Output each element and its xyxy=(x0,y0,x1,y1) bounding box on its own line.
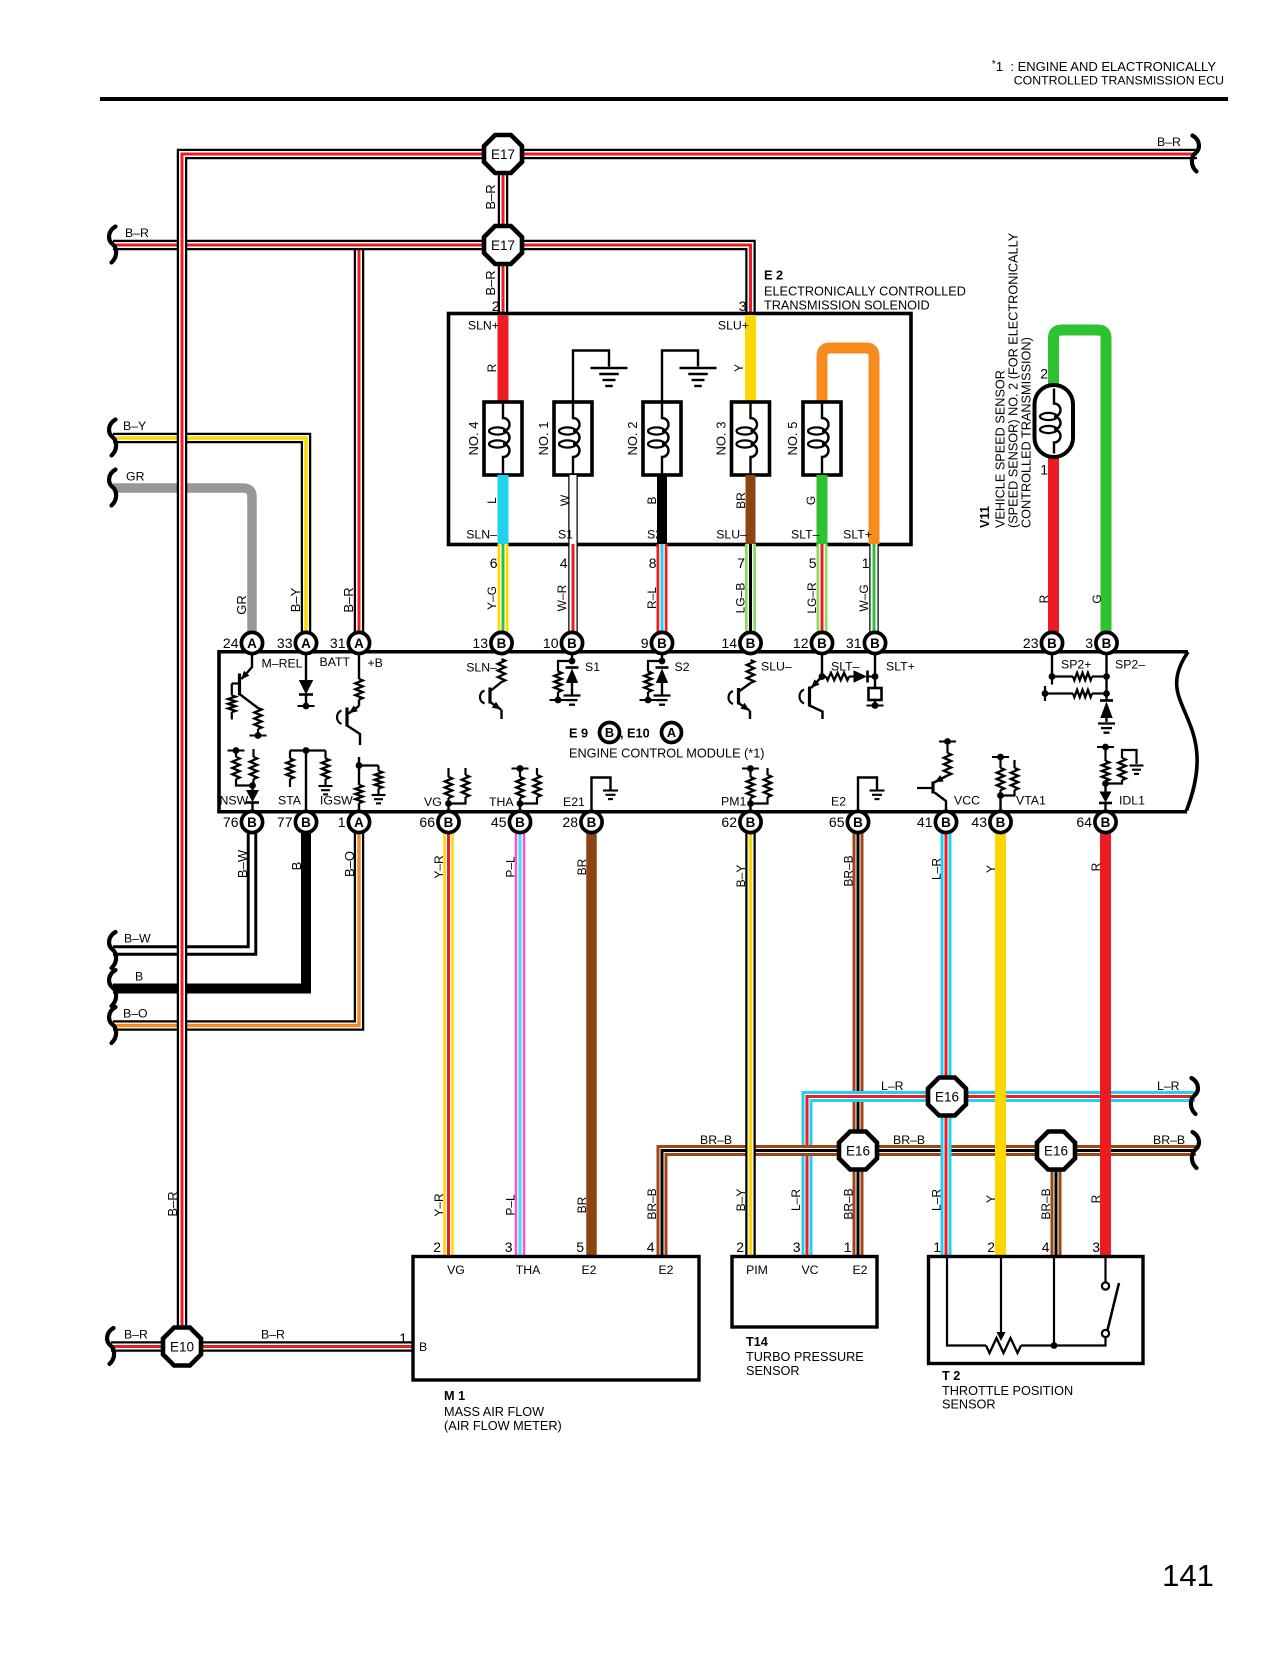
svg-text:M 1: M 1 xyxy=(444,1389,465,1403)
wire BR SLU- inside box xyxy=(746,475,756,544)
solenoid pin number 4 xyxy=(560,555,568,571)
label B-R (left, y245) xyxy=(125,226,149,240)
svg-text:1: 1 xyxy=(862,555,870,571)
svg-text:45: 45 xyxy=(491,814,507,830)
svg-text:3: 3 xyxy=(739,298,747,314)
connector E16 on BR-B left xyxy=(839,1132,877,1170)
continuation brace GR left xyxy=(109,470,116,506)
svg-text:5: 5 xyxy=(809,555,817,571)
svg-text:6: 6 xyxy=(490,555,498,571)
T14 pin number 2 xyxy=(736,1239,744,1255)
label S2 xyxy=(647,528,662,542)
svg-text:66: 66 xyxy=(419,814,435,830)
label SLN- xyxy=(466,528,497,542)
resistor IGSW xyxy=(355,757,382,812)
svg-text:B–Y: B–Y xyxy=(123,419,146,433)
ECM top pin 33 (A) xyxy=(277,632,317,653)
wire L-R horizontal run to T14 VC xyxy=(807,1097,1195,1257)
wire O loop from coil NO. 5 to SLT+ xyxy=(822,348,874,544)
title M 1 MASS AIR FLOW (AIR FLOW METER) xyxy=(444,1389,562,1433)
svg-text:SLT+: SLT+ xyxy=(886,660,915,674)
svg-text:PM1: PM1 xyxy=(721,795,746,809)
svg-text:B: B xyxy=(853,815,863,830)
svg-text:43: 43 xyxy=(971,814,987,830)
svg-text:M–REL: M–REL xyxy=(262,657,303,671)
wire B-R from left edge to solenoid pin 3 xyxy=(113,245,751,316)
label V11 VEHICLE SPEED SENSOR block xyxy=(978,232,1034,528)
solenoid box E2 outline xyxy=(449,314,912,545)
label BR-B rotated upper xyxy=(842,855,856,886)
ground (IDL1) xyxy=(1130,766,1144,774)
svg-text:B: B xyxy=(645,496,659,504)
svg-text:NO. 2: NO. 2 xyxy=(625,422,640,456)
transistor SLT- driver xyxy=(800,654,826,719)
svg-text:CONTROLLED TRANSMISSION): CONTROLLED TRANSMISSION) xyxy=(1020,337,1034,528)
svg-text:W–R: W–R xyxy=(555,584,569,611)
svg-text:B: B xyxy=(247,815,257,830)
svg-text:R: R xyxy=(1089,862,1103,871)
svg-text:B–W: B–W xyxy=(235,849,250,878)
ECM top pin 31 (B) xyxy=(846,632,886,653)
svg-text:P–L: P–L xyxy=(504,856,518,878)
ECM bottom pin 41 (B) xyxy=(917,811,957,832)
svg-text:B–Y: B–Y xyxy=(734,1189,748,1212)
label VCC xyxy=(954,794,980,808)
svg-text:B: B xyxy=(1102,636,1112,651)
label G rotated xyxy=(804,496,818,505)
svg-text:B: B xyxy=(1101,815,1111,830)
transistor SLN- driver xyxy=(480,682,502,719)
resistor SP2 row2 xyxy=(1042,686,1110,701)
svg-text:THA: THA xyxy=(516,1263,541,1277)
continuation brace B left xyxy=(109,970,116,1006)
svg-text:L–R: L–R xyxy=(789,1189,803,1211)
svg-text:E10: E10 xyxy=(170,1339,194,1354)
ECM top pin 3 (B) xyxy=(1085,632,1117,653)
label BR rotated lower xyxy=(575,1196,589,1213)
svg-text:BR: BR xyxy=(734,492,748,509)
solenoid coil NO. 4 xyxy=(466,402,522,475)
label SLU- xyxy=(716,528,747,542)
svg-text:41: 41 xyxy=(917,814,933,830)
label B-R rotated (pin31 riser) xyxy=(341,587,356,612)
resistor (+B) xyxy=(355,654,362,706)
svg-text:ENGINE CONTROL MODULE (*1): ENGINE CONTROL MODULE (*1) xyxy=(569,747,765,761)
ground (STA) xyxy=(319,786,333,794)
label SP2+ xyxy=(1061,658,1091,672)
svg-text:3: 3 xyxy=(1092,1239,1100,1255)
wire G loop V11 pin2 to ECM 3 xyxy=(1054,330,1107,632)
junction dot (M-REL) xyxy=(250,732,267,739)
svg-text:B: B xyxy=(444,815,454,830)
wire B-R vertical trunk with top horizontal run xyxy=(182,154,1197,1328)
wire Y ECM 43 to T2 pin2 xyxy=(995,833,1006,1256)
svg-text:B–R: B–R xyxy=(483,270,498,295)
svg-text:E16: E16 xyxy=(846,1143,870,1158)
svg-text:W–G: W–G xyxy=(857,584,871,611)
label B (left) xyxy=(135,970,143,984)
potentiometer (throttle position) xyxy=(947,1258,1057,1353)
svg-text:31: 31 xyxy=(846,635,862,651)
mass air flow meter M1 box xyxy=(413,1257,699,1381)
ECM bottom pin 43 (B) xyxy=(971,811,1011,832)
label B-W (left) xyxy=(124,932,151,946)
solenoid pin number 3 xyxy=(739,298,747,314)
resistor pair PM1 xyxy=(742,765,771,811)
svg-text:*1 : ENGINE AND ELACTRONICALL: *1 : ENGINE AND ELACTRONICALLY xyxy=(992,58,1217,74)
svg-text:, E10: , E10 xyxy=(620,727,650,741)
svg-text:L–R: L–R xyxy=(1157,1079,1180,1093)
label SP2- xyxy=(1115,658,1145,672)
wire B-W from ECM pin 76 to left xyxy=(113,833,252,951)
wire Y-R ECM 66 to M1 VG xyxy=(443,833,454,1256)
svg-text:LG–B: LG–B xyxy=(734,583,748,614)
svg-text:13: 13 xyxy=(472,635,488,651)
piezo element SLT+ xyxy=(867,654,884,709)
ECM top pin 9 (B) xyxy=(641,632,673,653)
svg-text:VCC: VCC xyxy=(954,794,980,808)
svg-text:R–L: R–L xyxy=(645,587,659,609)
label L-R left of E16 xyxy=(881,1079,904,1093)
wire Y-G pin6 to ECM 13 xyxy=(498,544,509,632)
svg-text:A: A xyxy=(667,725,676,740)
M1 pin number 2 xyxy=(433,1239,441,1255)
svg-text:14: 14 xyxy=(721,635,737,651)
transistor VCC xyxy=(917,775,948,811)
svg-text:E2: E2 xyxy=(831,795,846,809)
resistor pair VG xyxy=(445,768,469,812)
wire B-R from left edge through E10 to M1 pin 1 xyxy=(111,1341,413,1352)
solenoid pin number 6 xyxy=(490,555,498,571)
svg-text:141: 141 xyxy=(1162,1558,1214,1593)
svg-text:Y: Y xyxy=(984,865,998,873)
svg-text:B–O: B–O xyxy=(123,1007,148,1021)
svg-text:76: 76 xyxy=(223,814,239,830)
connector E10 xyxy=(163,1328,201,1366)
wire B-Y ECM 62 to T14 PIM xyxy=(745,833,756,1256)
label BR-B middle xyxy=(893,1133,925,1147)
wire R-L pin8 to ECM 9 xyxy=(657,544,668,632)
svg-text:THA: THA xyxy=(489,795,514,809)
label E2 (ECM) xyxy=(831,795,846,809)
svg-text:(AIR FLOW METER): (AIR FLOW METER) xyxy=(444,1419,562,1433)
connector E17 lower xyxy=(484,226,522,264)
wire BR-B ECM 65 down to T14 E2 xyxy=(853,833,864,1256)
svg-text:LG–R: LG–R xyxy=(805,582,819,614)
svg-text:2: 2 xyxy=(987,1239,995,1255)
V11 pin number 1 xyxy=(1040,462,1048,478)
svg-text:2: 2 xyxy=(736,1239,744,1255)
svg-text:L–R: L–R xyxy=(930,1189,944,1211)
svg-text:B–R: B–R xyxy=(341,587,356,612)
svg-text:B–Y: B–Y xyxy=(734,865,748,888)
label B-Y rotated xyxy=(288,587,303,612)
diode NSW xyxy=(246,786,259,812)
svg-text:BR–B: BR–B xyxy=(842,1188,856,1219)
svg-text:B: B xyxy=(567,636,577,651)
label P-L rotated upper xyxy=(504,856,518,878)
label SLN+ xyxy=(468,319,499,333)
wire P-L ECM 45 to M1 THA xyxy=(515,833,526,1256)
svg-text:Y: Y xyxy=(984,1195,998,1203)
solenoid coil NO. 1 xyxy=(536,402,592,475)
svg-text:Y: Y xyxy=(732,364,746,372)
label BR rotated xyxy=(734,492,748,509)
svg-text:SLU+: SLU+ xyxy=(718,319,749,333)
svg-text:7: 7 xyxy=(737,555,745,571)
resistor (VCC) xyxy=(939,738,956,775)
label R-L rotated xyxy=(645,587,659,609)
svg-text:V11: V11 xyxy=(978,506,992,528)
svg-text:BR–B: BR–B xyxy=(1039,1188,1053,1219)
label B inside M1 xyxy=(419,1340,427,1354)
svg-text:R: R xyxy=(485,363,499,372)
svg-text:BR: BR xyxy=(575,1196,589,1213)
label PM1 xyxy=(721,795,746,809)
label B-W rotated xyxy=(235,849,250,878)
ECM top pin 31 (A) xyxy=(330,632,370,653)
resistor pair THA xyxy=(512,765,541,811)
throttle position sensor T2 box xyxy=(929,1257,1144,1364)
label W rotated xyxy=(558,494,572,506)
svg-text:CONTROLLED TRANSMISSION ECU: CONTROLLED TRANSMISSION ECU xyxy=(1014,74,1224,88)
label B-O (left) xyxy=(123,1007,148,1021)
label L-R rotated upper xyxy=(930,858,944,880)
ECM bottom pin 77 (B) xyxy=(277,811,317,832)
label R rotated (V11) xyxy=(1037,594,1051,603)
M1 pin number 3 xyxy=(505,1239,513,1255)
zener diode and resistor S2 xyxy=(640,654,690,705)
svg-text:B–R: B–R xyxy=(124,1328,148,1342)
svg-text:23: 23 xyxy=(1023,635,1039,651)
label M-REL xyxy=(262,657,303,671)
svg-text:SLT–: SLT– xyxy=(791,528,820,542)
svg-text:2: 2 xyxy=(492,298,500,314)
T2 pin number 2 xyxy=(987,1239,995,1255)
wire BR ECM 28 to M1 E2 xyxy=(586,833,597,1256)
ground (SP2-) xyxy=(1098,724,1115,733)
T2 pin number 4 xyxy=(1042,1239,1050,1255)
svg-text:B–R: B–R xyxy=(1157,135,1181,149)
continuation brace B-R top right xyxy=(1192,136,1199,172)
svg-text:BR–B: BR–B xyxy=(645,1188,659,1219)
M1 pin number 1 xyxy=(399,1330,407,1346)
resistor (SLU- collector) xyxy=(747,660,754,683)
svg-text:4: 4 xyxy=(1042,1239,1050,1255)
continuation brace B-Y left xyxy=(109,420,116,456)
svg-text:BR–B: BR–B xyxy=(842,855,856,886)
label B-R rotated (trunk lower) xyxy=(165,1191,180,1216)
svg-text:65: 65 xyxy=(829,814,845,830)
label L-R right xyxy=(1157,1079,1180,1093)
wire R SLN+ inside box xyxy=(498,315,509,402)
ECM top pin 23 (B) xyxy=(1023,632,1063,653)
wire L-R ECM 41 to T2 pin1 xyxy=(941,833,952,1256)
svg-text:8: 8 xyxy=(649,555,657,571)
svg-text:24: 24 xyxy=(223,635,239,651)
svg-text:SLU–: SLU– xyxy=(761,660,792,674)
label R rotated lower xyxy=(1089,1194,1103,1203)
svg-text:B: B xyxy=(301,815,311,830)
title T14 TURBO PRESSURE SENSOR xyxy=(746,1335,864,1378)
ECM bottom pin 65 (B) xyxy=(829,811,869,832)
svg-text:T14: T14 xyxy=(746,1335,768,1349)
label BR-B right xyxy=(1153,1133,1185,1147)
ECM top pin 12 (B) xyxy=(793,632,833,653)
ground for coil NO. 1 xyxy=(573,351,628,403)
ground for coil NO. 2 xyxy=(662,351,717,403)
title T 2 THROTTLE POSITION SENSOR xyxy=(942,1369,1073,1412)
label P-L rotated lower xyxy=(504,1194,518,1216)
wire LG-B pin7 to ECM 14 xyxy=(745,544,756,632)
label THA xyxy=(489,795,514,809)
svg-text:B: B xyxy=(996,815,1006,830)
label L-R rotated lower xyxy=(930,1189,944,1211)
svg-text:E17: E17 xyxy=(491,238,515,253)
label E 9 (B), E10 (A) xyxy=(569,723,682,743)
diode SP2- to ground xyxy=(1100,654,1113,722)
svg-text:P–L: P–L xyxy=(504,1194,518,1216)
svg-text:B–R: B–R xyxy=(125,226,149,240)
transistor M-REL driver xyxy=(232,654,258,708)
svg-text:NO. 4: NO. 4 xyxy=(466,422,481,456)
solenoid pin number 7 xyxy=(737,555,745,571)
continuation brace B-R bottom left xyxy=(107,1328,114,1364)
svg-text:B: B xyxy=(587,815,597,830)
continuation brace B-O left xyxy=(109,1007,116,1043)
wire LG-R pin5 to ECM 12 xyxy=(817,544,828,632)
wire BR-B horizontal run to M1 E2 pin4 xyxy=(662,1151,1196,1257)
svg-text:SLN–: SLN– xyxy=(466,528,497,542)
resistor (M-REL base) xyxy=(228,696,235,720)
M1 pin number 5 xyxy=(576,1239,584,1255)
svg-text:Y–R: Y–R xyxy=(432,855,446,879)
solenoid coil NO. 2 xyxy=(625,402,681,475)
label LG-R rotated xyxy=(805,582,819,614)
wire G SLT- inside box xyxy=(817,475,828,544)
label BR-B left xyxy=(700,1133,732,1147)
continuation brace B-R left xyxy=(109,227,116,263)
svg-text:THROTTLE POSITION: THROTTLE POSITION xyxy=(942,1384,1073,1398)
label SLU- (ECM) xyxy=(761,660,792,674)
svg-text:VC: VC xyxy=(801,1263,818,1277)
ECM bottom pin 76 (B) xyxy=(223,811,263,832)
svg-text:SP2–: SP2– xyxy=(1115,658,1145,672)
svg-text:1: 1 xyxy=(844,1239,852,1255)
solenoid pin number 8 xyxy=(649,555,657,571)
ground E21 xyxy=(592,778,619,812)
label BR rotated upper xyxy=(575,858,589,875)
svg-text:SLT–: SLT– xyxy=(831,660,860,674)
svg-text:Y–R: Y–R xyxy=(432,1193,446,1217)
svg-text:NO. 1: NO. 1 xyxy=(536,422,551,456)
svg-text:BR–B: BR–B xyxy=(893,1133,925,1147)
label E21 xyxy=(563,795,585,809)
label R rotated upper xyxy=(1089,862,1103,871)
label B rotated xyxy=(645,496,659,504)
ECM bottom pin 45 (B) xyxy=(491,811,531,832)
continuation brace B-W left xyxy=(109,932,116,968)
label NSW xyxy=(220,794,249,808)
label B-Y rotated lower xyxy=(734,1189,748,1212)
svg-text:VEHICLE SPEED SENSOR: VEHICLE SPEED SENSOR xyxy=(994,370,1008,528)
wire B-R between E17 junctions down to solenoid pin 2 xyxy=(498,154,509,316)
ground (IGSW) xyxy=(372,795,386,803)
svg-text:Y–G: Y–G xyxy=(485,586,499,610)
svg-text:B–R: B–R xyxy=(261,1328,285,1342)
svg-text:B: B xyxy=(746,815,756,830)
svg-text:S2: S2 xyxy=(675,660,690,674)
page number 141 xyxy=(1162,1558,1214,1593)
label B-O rotated xyxy=(342,851,357,877)
continuation brace BR-B right xyxy=(1192,1132,1199,1168)
svg-text:S1: S1 xyxy=(585,660,600,674)
ECM bottom pin 66 (B) xyxy=(419,811,459,832)
svg-text:S1: S1 xyxy=(558,528,573,542)
label L rotated xyxy=(485,497,499,504)
resistor pair VTA1 xyxy=(992,754,1018,812)
label ENGINE CONTROL MODULE (*1) xyxy=(569,747,765,761)
diode (SLT- to SLT+) xyxy=(854,670,876,682)
label B-R left of E10 xyxy=(124,1328,148,1342)
svg-text:E2: E2 xyxy=(581,1263,596,1277)
note: *1 engine and electronically controlled transmission ECU xyxy=(100,58,1228,99)
svg-text:B: B xyxy=(289,862,304,871)
svg-text:1: 1 xyxy=(933,1239,941,1255)
svg-text:B: B xyxy=(1047,636,1057,651)
svg-text:VG: VG xyxy=(447,1263,465,1277)
svg-text:L–R: L–R xyxy=(930,858,944,880)
resistor (SLN- collector) xyxy=(498,659,505,682)
svg-text:W: W xyxy=(558,494,572,506)
svg-text:SP2+: SP2+ xyxy=(1061,658,1091,672)
ECM bottom pin 1 (A) xyxy=(338,811,370,832)
label SLU+ xyxy=(718,319,749,333)
svg-text:E21: E21 xyxy=(563,795,585,809)
wire W-R pin4 to ECM 10 xyxy=(568,544,578,632)
svg-text:B–R: B–R xyxy=(165,1191,180,1216)
svg-text:E16: E16 xyxy=(1044,1143,1068,1158)
svg-text:B: B xyxy=(419,1340,427,1354)
speed sensor V11 body xyxy=(1035,385,1074,457)
label BATT xyxy=(320,655,351,669)
svg-text:E 9: E 9 xyxy=(569,727,588,741)
label STA xyxy=(278,794,302,808)
svg-text:SENSOR: SENSOR xyxy=(942,1398,996,1412)
resistor (SLT- to SLT+) xyxy=(822,673,854,680)
M1 pin labels xyxy=(447,1263,674,1277)
svg-text:ELECTRONICALLY CONTROLLED: ELECTRONICALLY CONTROLLED xyxy=(764,285,966,299)
label B-R (top right) xyxy=(1157,135,1181,149)
label Y rotated xyxy=(732,364,746,372)
svg-text:R: R xyxy=(1089,1194,1103,1203)
svg-text:E 2: E 2 xyxy=(764,269,783,283)
ECM box outline xyxy=(219,652,1197,812)
T14 pin number 1 xyxy=(844,1239,852,1255)
resistor (M-REL emitter) xyxy=(254,708,261,734)
label R rotated xyxy=(485,363,499,372)
svg-text:B–W: B–W xyxy=(124,932,151,946)
label SLT+ xyxy=(843,528,872,542)
svg-text:B: B xyxy=(817,636,827,651)
label VTA1 xyxy=(1016,794,1046,808)
label SLT- xyxy=(791,528,820,542)
svg-text:1: 1 xyxy=(399,1330,407,1346)
ECM top pin 13 (B) xyxy=(472,632,512,653)
svg-text:BR–B: BR–B xyxy=(1153,1133,1185,1147)
label Y rotated upper xyxy=(984,865,998,873)
svg-text:3: 3 xyxy=(1085,635,1093,651)
